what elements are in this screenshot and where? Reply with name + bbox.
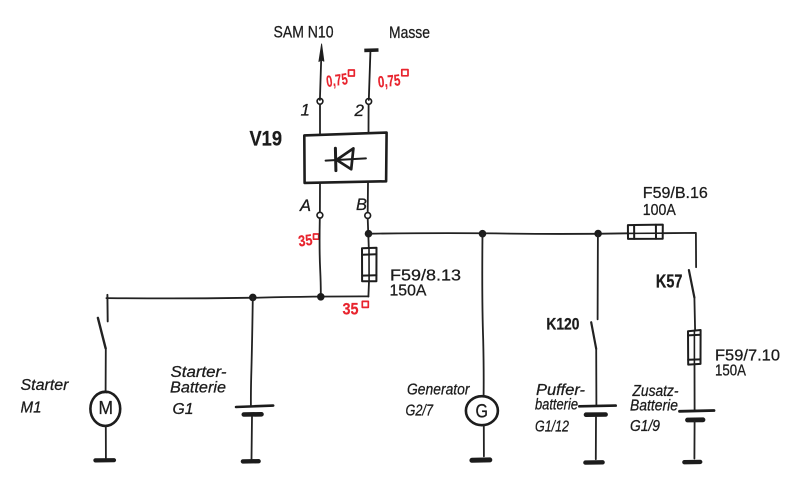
wire battery G1 to ground xyxy=(251,417,254,459)
wire generator to ground xyxy=(483,425,485,456)
battery G1/12 Pufferbatterie xyxy=(579,406,615,415)
label Zusatz-Batterie G1/9 xyxy=(630,383,679,435)
pin A xyxy=(299,197,323,218)
pin 2 xyxy=(354,99,372,121)
label Generator G2/7 xyxy=(406,382,471,420)
svg-text:M1: M1 xyxy=(21,400,42,417)
battery G1/9 Zusatzbatterie xyxy=(680,411,715,421)
svg-text:G: G xyxy=(476,401,489,423)
wire K120 drop xyxy=(597,234,599,320)
generator G2/7 xyxy=(466,396,498,425)
svg-text:B: B xyxy=(356,196,367,214)
wire bus to switch K57 xyxy=(663,233,696,267)
pin 1 xyxy=(301,98,323,119)
fuse F59/7.10 xyxy=(688,330,701,365)
wire generator drop xyxy=(482,234,483,397)
wire pin 1 to V19 xyxy=(319,104,321,133)
wire battery G1/9 to ground xyxy=(693,421,695,458)
wire label 35 mm2 at A xyxy=(297,232,318,251)
junction A wire at bottom bus xyxy=(317,293,325,301)
svg-text:K120: K120 xyxy=(546,315,579,334)
ground battery G1/12 xyxy=(585,460,602,465)
label Starter M1 xyxy=(21,377,70,417)
junction G1 at bottom bus xyxy=(249,294,257,302)
label F59/B.16 100A xyxy=(643,185,708,219)
fuse F59/B.16 xyxy=(628,225,663,239)
svg-text:V19: V19 xyxy=(250,128,283,151)
label F59/7.10 150A xyxy=(715,348,780,380)
wire pin B down to fuse xyxy=(368,218,369,248)
svg-text:Batterie: Batterie xyxy=(630,398,678,415)
svg-text:K57: K57 xyxy=(656,272,683,292)
svg-text:G1/12: G1/12 xyxy=(535,419,569,436)
svg-text:G1/9: G1/9 xyxy=(630,418,660,435)
svg-text:100A: 100A xyxy=(643,202,676,219)
wire battery G1/12 to ground xyxy=(595,417,597,460)
motor M1 xyxy=(90,392,120,426)
wire K120 to battery G1/12 xyxy=(595,349,597,405)
wire K57 to fuse F59/7.10 xyxy=(693,298,696,330)
fuse F59/8.13 xyxy=(362,248,377,282)
label F59/8.13 150A xyxy=(390,268,462,300)
svg-text:150A: 150A xyxy=(715,363,746,380)
svg-text:Generator: Generator xyxy=(407,382,470,399)
svg-text:M: M xyxy=(99,397,114,418)
wire battery G1 drop xyxy=(251,297,253,405)
wire V19 pin B upper xyxy=(367,183,369,213)
junction K120 at top bus xyxy=(594,230,602,238)
svg-text:Masse: Masse xyxy=(389,24,430,42)
diode symbol inside V19 xyxy=(326,148,366,170)
ground generator xyxy=(472,457,490,462)
wire fuse F59/8.13 to bottom bus xyxy=(367,281,370,296)
wire label 0,75 mm2 at pin 2 xyxy=(377,70,408,92)
svg-text:150A: 150A xyxy=(390,283,427,300)
junction generator at top bus xyxy=(479,230,487,238)
svg-text:0,75: 0,75 xyxy=(377,72,401,91)
svg-text:SAM N10: SAM N10 xyxy=(274,23,334,42)
wire motor to ground xyxy=(105,426,107,458)
svg-text:G1: G1 xyxy=(173,401,194,418)
ground battery G1 xyxy=(243,459,259,464)
svg-text:Starter-: Starter- xyxy=(171,364,227,381)
pin B xyxy=(356,196,371,218)
svg-text:Starter: Starter xyxy=(21,377,70,394)
svg-text:1: 1 xyxy=(301,101,310,120)
wire top bus xyxy=(369,232,628,235)
wire pin 2 to V19 xyxy=(368,105,370,133)
svg-text:0,75: 0,75 xyxy=(325,71,349,91)
diode module V19 box xyxy=(304,133,386,183)
wire switch to motor M1 xyxy=(105,348,107,391)
label Starter-Batterie G1 xyxy=(170,364,227,418)
junction pin B and top bus xyxy=(365,230,373,238)
switch K57 xyxy=(689,270,695,298)
wire bottom bus xyxy=(106,296,368,298)
svg-text:A: A xyxy=(299,197,311,215)
ground battery G1/9 xyxy=(684,460,700,465)
svg-text:35: 35 xyxy=(343,300,359,319)
wire V19 pin A upper xyxy=(319,183,321,212)
wire label 0,75 mm2 at pin 1 xyxy=(325,70,354,91)
wire pin A to bottom bus xyxy=(320,218,321,296)
switch K120 xyxy=(591,322,596,349)
switch starter contact xyxy=(98,295,108,348)
ground starter xyxy=(95,458,114,462)
node SAM N10 arrow terminal xyxy=(319,44,324,100)
battery G1 xyxy=(236,406,273,415)
svg-text:batterie: batterie xyxy=(535,397,578,414)
svg-text:2: 2 xyxy=(354,101,365,120)
svg-text:G2/7: G2/7 xyxy=(406,403,435,420)
wire label 35 mm2 at bottom bus xyxy=(343,300,369,319)
svg-text:35: 35 xyxy=(297,232,313,251)
svg-text:Batterie: Batterie xyxy=(170,380,226,397)
wire fuse F59/7.10 to battery G1/9 xyxy=(694,364,696,410)
node Masse terminal bar xyxy=(364,50,378,100)
svg-text:F59/B.16: F59/B.16 xyxy=(643,185,708,202)
label Pufferbatterie G1/12 xyxy=(535,382,585,436)
